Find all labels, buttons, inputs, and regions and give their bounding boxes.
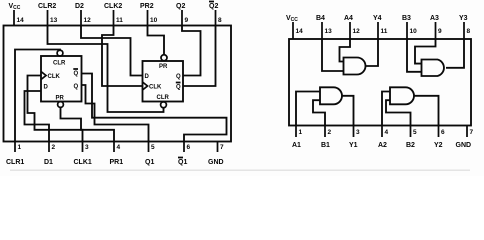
svg-text:14: 14 [17, 17, 25, 24]
pin 8 Y3 stub [459, 15, 471, 39]
svg-text:6: 6 [187, 144, 191, 151]
pin 7 GND stub [456, 126, 474, 150]
pin 1 A1 stub [292, 126, 303, 150]
FF1 PR bubble [58, 102, 64, 108]
svg-text:4: 4 [385, 129, 389, 136]
svg-text:Y3: Y3 [459, 15, 468, 22]
svg-text:B1: B1 [321, 142, 330, 149]
wire B4: pin13 to G4 lower input [322, 39, 344, 71]
pin 5 Q1 stub [145, 142, 155, 167]
svg-text:10: 10 [410, 28, 418, 35]
svg-text:D1: D1 [44, 159, 53, 166]
wire D2: pin12 to FF2 D input [81, 26, 143, 76]
svg-text:Y1: Y1 [349, 142, 358, 149]
pin 12 D2 stub [75, 3, 91, 26]
wire B1: pin2 to G1 lower input [313, 100, 325, 125]
IC package outline U1 [4, 26, 232, 142]
wire A2: pin4 to G2 upper input [382, 92, 390, 126]
svg-text:Q: Q [74, 71, 79, 77]
pin 4 PR1 stub [110, 142, 124, 167]
svg-text:A3: A3 [430, 15, 439, 22]
FF1 clock triangle [41, 72, 46, 80]
svg-text:GND: GND [208, 159, 224, 166]
svg-text:3: 3 [85, 144, 89, 151]
svg-text:Q: Q [74, 84, 79, 90]
pin 10 PR2 stub [140, 3, 158, 26]
svg-text:A1: A1 [292, 142, 301, 149]
pin 13 B4 stub [316, 15, 332, 39]
wire CLR1: pin1 to FF1 CLR bubble [15, 50, 60, 142]
svg-text:4: 4 [117, 144, 121, 151]
svg-text:CLR1: CLR1 [6, 159, 24, 166]
pin 4 A2 stub [378, 126, 389, 150]
AND gate G1 lower-left [320, 87, 342, 104]
pin 11 CLK2 stub [104, 3, 123, 26]
wire Q2: pin9 to FF2 Q output [182, 26, 201, 76]
pin 9 Q2 stub [176, 3, 189, 26]
svg-text:Y2: Y2 [434, 142, 443, 149]
svg-text:CLK: CLK [149, 85, 162, 91]
svg-text:13: 13 [325, 28, 333, 35]
pin 2 B1 stub [321, 126, 332, 150]
IC package outline U2 [289, 39, 471, 126]
svg-text:7: 7 [220, 144, 224, 151]
svg-text:GND: GND [456, 142, 472, 149]
svg-text:A4: A4 [344, 15, 353, 22]
svg-text:7: 7 [470, 129, 474, 136]
svg-text:12: 12 [84, 17, 92, 24]
wire PR2: pin10 to FF2 PR bubble [148, 26, 165, 55]
wire CLR2: pin13 to FF2 CLR bubble [48, 26, 164, 113]
svg-text:14: 14 [296, 28, 304, 35]
svg-text:10: 10 [150, 17, 158, 24]
pin 1 CLR1 stub [6, 142, 24, 167]
svg-text:CLK2: CLK2 [104, 3, 122, 10]
wire PR1: pin4 to FF1 PR bubble [61, 107, 115, 141]
svg-text:CLR2: CLR2 [38, 3, 56, 10]
svg-text:5: 5 [151, 144, 155, 151]
wire Q2bar: pin8 to FF2 Qbar output [183, 26, 216, 87]
pin 12 A4 stub [344, 15, 360, 39]
wire B3: pin10 to G3 lower input [407, 39, 422, 72]
wire Y4: G4 output to pin11 [366, 39, 379, 66]
wire A3: pin9 to G3 upper input [415, 39, 436, 64]
FF2 PR bubble [161, 55, 167, 61]
pin 14 Vcc stub [9, 3, 25, 26]
pin 2 D1 stub [44, 142, 56, 167]
svg-text:CLK1: CLK1 [74, 159, 92, 166]
wire Q1bar: FF1 Qbar output to pin6 [82, 74, 227, 142]
wire Q1: FF1 Q output to pin5 [82, 85, 149, 142]
svg-text:6: 6 [441, 129, 445, 136]
svg-text:PR: PR [159, 64, 168, 70]
wire A4: pin12 to G4 upper input [340, 39, 351, 62]
flip-flop FF2 body [143, 61, 184, 102]
svg-text:12: 12 [353, 28, 361, 35]
svg-text:9: 9 [438, 28, 442, 35]
svg-text:Q1: Q1 [145, 159, 154, 166]
svg-text:9: 9 [185, 17, 189, 24]
svg-text:Q: Q [176, 74, 181, 80]
pin 11 Y4 stub [373, 15, 388, 39]
pin 7 GND stub [208, 142, 224, 167]
svg-text:VCC: VCC [9, 3, 21, 11]
svg-text:CLK: CLK [48, 74, 61, 80]
svg-text:2: 2 [328, 129, 332, 136]
svg-text:B3: B3 [402, 15, 411, 22]
svg-text:8: 8 [218, 17, 222, 24]
pin 6 Y2 stub [434, 126, 445, 150]
svg-text:B4: B4 [316, 15, 325, 22]
svg-text:B2: B2 [406, 142, 415, 149]
svg-text:PR: PR [56, 96, 65, 102]
svg-text:Q2: Q2 [176, 3, 185, 10]
wire Y2: G2 output to pin6 [414, 96, 439, 126]
svg-text:Q: Q [176, 85, 181, 91]
svg-text:Q1: Q1 [178, 159, 187, 166]
svg-text:1: 1 [18, 144, 22, 151]
wire B2: pin5 to G2 lower input [386, 100, 411, 125]
AND gate G2 lower-right [390, 87, 414, 104]
svg-text:13: 13 [50, 17, 58, 24]
svg-text:Y4: Y4 [373, 15, 382, 22]
svg-text:11: 11 [381, 28, 388, 35]
svg-text:VCC: VCC [286, 15, 298, 23]
AND gate G4 upper-left [344, 58, 366, 75]
wire A1: pin1 to G1 upper input [296, 92, 320, 126]
pin 5 B2 stub [406, 126, 417, 150]
pin 14 Vcc stub right IC [286, 15, 303, 39]
wire CLK1: pin3 to FF1 CLK input [28, 76, 83, 142]
wire Y1: G1 output to pin3 [342, 96, 354, 126]
svg-text:Q2: Q2 [209, 3, 218, 10]
svg-text:8: 8 [467, 28, 471, 35]
AND gate G3 upper-right [422, 60, 444, 77]
svg-text:D: D [145, 74, 150, 80]
FF2 clock triangle [143, 82, 148, 90]
svg-text:CLR: CLR [53, 61, 66, 67]
svg-text:3: 3 [356, 129, 360, 136]
pin 8 Q2bar stub [209, 2, 222, 26]
flip-flop FF1 body [41, 56, 82, 102]
svg-text:A2: A2 [378, 142, 387, 149]
FF2 CLR bubble [161, 102, 167, 108]
svg-text:D: D [44, 85, 49, 91]
svg-text:PR1: PR1 [110, 159, 124, 166]
pin 9 A3 stub [430, 15, 442, 39]
pin 10 B3 stub [402, 15, 417, 39]
pin 6 Q1bar stub [178, 142, 191, 167]
wire Y3: G3 output to pin8 [446, 39, 464, 68]
svg-text:CLR: CLR [157, 95, 170, 101]
pin 3 Y1 stub [349, 126, 360, 150]
wire CLK2: pin11 to FF2 CLK input [102, 26, 143, 87]
svg-text:D2: D2 [75, 3, 84, 10]
wire D1: pin2 to FF1 D input [25, 91, 50, 142]
svg-text:2: 2 [52, 144, 56, 151]
svg-text:1: 1 [299, 129, 303, 136]
svg-text:11: 11 [116, 17, 123, 24]
FF1 CLR bubble [57, 50, 63, 56]
pin 3 CLK1 stub [74, 142, 92, 167]
pin 13 CLR2 stub [38, 3, 58, 26]
svg-text:PR2: PR2 [140, 3, 154, 10]
svg-text:5: 5 [413, 129, 417, 136]
